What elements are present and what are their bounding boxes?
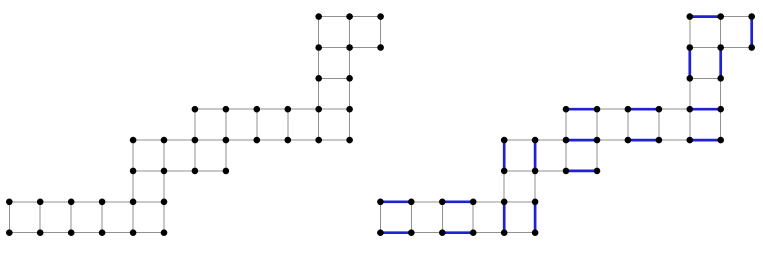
- vertex (11,4): [717, 137, 724, 144]
- vertex (12,1): [377, 44, 384, 51]
- vertex (6,3): [563, 106, 570, 113]
- vertex (0,7): [377, 229, 384, 236]
- edge (4,4)-(5,4): [133, 139, 164, 141]
- matching edge (6,4)-(7,4): [566, 139, 597, 142]
- vertex (9,4): [285, 137, 292, 144]
- vertex (7,4): [594, 137, 601, 144]
- vertex (4,6): [501, 199, 508, 206]
- edge (10,4)-(11,4): [319, 139, 350, 141]
- matching edge (8,4)-(9,4): [628, 139, 659, 142]
- edge (8,3)-(8,4): [256, 109, 258, 140]
- edge (6,3)-(7,3): [566, 108, 597, 110]
- vertex (10,1): [315, 44, 322, 51]
- edge (4,6)-(4,7): [132, 202, 134, 233]
- vertex (5,5): [161, 168, 168, 175]
- edge (10,3)-(10,4): [689, 109, 691, 140]
- edge (10,1)-(11,1): [319, 47, 350, 49]
- matching edge (6,3)-(7,3): [566, 108, 597, 111]
- edge (10,2)-(10,3): [318, 78, 320, 109]
- matching edge (4,6)-(4,7): [503, 202, 506, 233]
- edge (6,4)-(7,4): [195, 139, 226, 141]
- matching edge (10,4)-(11,4): [690, 139, 721, 142]
- right graph: wires/edges: [380, 17, 751, 233]
- vertex (2,7): [68, 229, 75, 236]
- vertex (8,3): [253, 106, 260, 113]
- edge (3,7)-(4,7): [102, 232, 133, 234]
- edge (6,3)-(7,3): [195, 108, 226, 110]
- vertex (0,6): [377, 199, 384, 206]
- edge (9,4)-(10,4): [288, 139, 319, 141]
- edge (10,1)-(11,1): [690, 47, 721, 49]
- edge (4,6)-(5,6): [133, 201, 164, 203]
- edge (9,3)-(10,3): [659, 108, 690, 110]
- edge (2,7)-(3,7): [442, 232, 473, 234]
- edge (5,5)-(6,5): [164, 170, 195, 172]
- vertex (6,5): [563, 168, 570, 175]
- edge (10,0)-(10,1): [318, 17, 320, 48]
- vertex (6,3): [192, 106, 199, 113]
- vertex (5,6): [532, 199, 539, 206]
- vertex (11,1): [346, 44, 353, 51]
- matching edge (2,7)-(3,7): [442, 231, 473, 234]
- vertex (10,4): [315, 137, 322, 144]
- edge (11,2)-(11,3): [349, 78, 351, 109]
- vertex (11,3): [346, 106, 353, 113]
- vertex (2,6): [68, 199, 75, 206]
- edge (7,3)-(8,3): [597, 108, 628, 110]
- edge (11,1)-(11,2): [720, 48, 722, 79]
- edge (4,6)-(4,7): [503, 202, 505, 233]
- vertex (9,4): [656, 137, 663, 144]
- vertex (7,3): [223, 106, 230, 113]
- edge (7,4)-(8,4): [226, 139, 257, 141]
- vertex (11,0): [717, 13, 724, 20]
- edge (5,5)-(6,5): [535, 170, 566, 172]
- vertex (4,6): [130, 199, 137, 206]
- left graph: vertices: [6, 13, 384, 236]
- vertex (11,4): [346, 137, 353, 144]
- edge (10,0)-(10,1): [689, 17, 691, 48]
- vertex (5,7): [161, 229, 168, 236]
- vertex (9,3): [285, 106, 292, 113]
- vertex (10,0): [687, 13, 694, 20]
- edge (11,1)-(12,1): [721, 47, 752, 49]
- matching edge (10,3)-(11,3): [690, 108, 721, 111]
- edge (3,6)-(3,7): [472, 202, 474, 233]
- edge (10,0)-(11,0): [319, 16, 350, 18]
- vertex (1,7): [408, 229, 415, 236]
- edge (6,3)-(6,4): [194, 109, 196, 140]
- matching edge (11,1)-(11,2): [719, 48, 722, 79]
- vertex (6,4): [192, 137, 199, 144]
- edge (4,4)-(4,5): [132, 140, 134, 171]
- right graph: vertices: [377, 13, 755, 236]
- edge (2,7)-(3,7): [71, 232, 102, 234]
- vertex (4,4): [501, 137, 508, 144]
- matching edge (10,1)-(10,2): [688, 48, 691, 79]
- edge (4,7)-(5,7): [504, 232, 535, 234]
- edge (10,2)-(11,2): [319, 77, 350, 79]
- vertex (4,7): [501, 229, 508, 236]
- edge (5,6)-(5,7): [163, 202, 165, 233]
- edge (5,6)-(5,7): [534, 202, 536, 233]
- edge (10,4)-(11,4): [690, 139, 721, 141]
- edge (4,6)-(5,6): [504, 201, 535, 203]
- edge (7,3)-(8,3): [226, 108, 257, 110]
- edge (4,5)-(4,6): [503, 171, 505, 202]
- edge (10,2)-(10,3): [689, 78, 691, 109]
- edge (1,6)-(1,7): [39, 202, 41, 233]
- edge (5,4)-(6,4): [535, 139, 566, 141]
- edge (10,3)-(11,3): [690, 108, 721, 110]
- edge (7,4)-(7,5): [596, 140, 598, 171]
- edge (4,4)-(5,4): [504, 139, 535, 141]
- edge (6,4)-(6,5): [194, 140, 196, 171]
- matching edge (5,6)-(5,7): [534, 202, 537, 233]
- edge (8,4)-(9,4): [628, 139, 659, 141]
- vertex (6,4): [563, 137, 570, 144]
- edge (11,3)-(11,4): [720, 109, 722, 140]
- vertex (9,3): [656, 106, 663, 113]
- edge (7,3)-(7,4): [596, 109, 598, 140]
- vertex (1,6): [37, 199, 44, 206]
- edge (10,3)-(11,3): [319, 108, 350, 110]
- vertex (11,1): [717, 44, 724, 51]
- edge (8,3)-(9,3): [257, 108, 288, 110]
- left graph: wires/edges: [9, 17, 380, 233]
- edge (3,6)-(4,6): [102, 201, 133, 203]
- vertex (8,4): [253, 137, 260, 144]
- matching edge (8,3)-(9,3): [628, 108, 659, 111]
- edge (11,0)-(12,0): [721, 16, 752, 18]
- vertex (5,4): [161, 137, 168, 144]
- vertex (5,4): [532, 137, 539, 144]
- edge (2,6)-(3,6): [442, 201, 473, 203]
- edge (2,6)-(2,7): [441, 202, 443, 233]
- vertex (10,4): [687, 137, 694, 144]
- vertex (11,2): [717, 75, 724, 82]
- edge (1,6)-(1,7): [410, 202, 412, 233]
- vertex (3,7): [99, 229, 106, 236]
- vertex (12,1): [748, 44, 755, 51]
- edge (5,4)-(5,5): [534, 140, 536, 171]
- vertex (10,2): [315, 75, 322, 82]
- vertex (3,6): [470, 199, 477, 206]
- vertex (4,5): [130, 168, 137, 175]
- vertex (10,3): [687, 106, 694, 113]
- vertex (5,5): [532, 168, 539, 175]
- edge (11,1)-(12,1): [350, 47, 381, 49]
- edge (6,5)-(7,5): [566, 170, 597, 172]
- edge (12,0)-(12,1): [380, 17, 382, 48]
- vertex (6,5): [192, 168, 199, 175]
- matching edge (12,0)-(12,1): [750, 17, 753, 48]
- vertex (2,6): [439, 199, 446, 206]
- edge (10,0)-(11,0): [690, 16, 721, 18]
- vertex (5,6): [161, 199, 168, 206]
- vertex (7,4): [223, 137, 230, 144]
- edge (8,3)-(8,4): [627, 109, 629, 140]
- vertex (10,1): [687, 44, 694, 51]
- edge (4,4)-(4,5): [503, 140, 505, 171]
- edge (6,4)-(7,4): [566, 139, 597, 141]
- edge (11,1)-(11,2): [349, 48, 351, 79]
- edge (10,2)-(11,2): [690, 77, 721, 79]
- edge (4,5)-(5,5): [504, 170, 535, 172]
- edge (11,0)-(11,1): [720, 17, 722, 48]
- edge (11,0)-(12,0): [350, 16, 381, 18]
- edge (6,4)-(6,5): [565, 140, 567, 171]
- vertex (12,0): [377, 13, 384, 20]
- edge (5,5)-(5,6): [163, 171, 165, 202]
- edge (6,3)-(6,4): [565, 109, 567, 140]
- vertex (10,0): [315, 13, 322, 20]
- edge (11,0)-(11,1): [349, 17, 351, 48]
- edge (3,7)-(4,7): [473, 232, 504, 234]
- vertex (11,0): [346, 13, 353, 20]
- edge (10,3)-(10,4): [318, 109, 320, 140]
- edge (1,7)-(2,7): [40, 232, 71, 234]
- vertex (10,3): [315, 106, 322, 113]
- edge (9,4)-(10,4): [659, 139, 690, 141]
- edge (3,6)-(4,6): [473, 201, 504, 203]
- vertex (7,3): [594, 106, 601, 113]
- edge (9,3)-(9,4): [287, 109, 289, 140]
- edge (3,6)-(3,7): [101, 202, 103, 233]
- vertex (8,4): [625, 137, 632, 144]
- vertex (1,6): [408, 199, 415, 206]
- edge (7,4)-(8,4): [597, 139, 628, 141]
- vertex (4,7): [130, 229, 137, 236]
- vertex (0,6): [6, 199, 13, 206]
- right graph: perfect matching (blue edges): [380, 17, 751, 233]
- vertex (11,3): [717, 106, 724, 113]
- edge (2,6)-(2,7): [70, 202, 72, 233]
- vertex (3,6): [99, 199, 106, 206]
- vertex (3,7): [470, 229, 477, 236]
- edge (6,5)-(7,5): [195, 170, 226, 172]
- edge (5,4)-(5,5): [163, 140, 165, 171]
- vertex (1,7): [37, 229, 44, 236]
- edge (5,4)-(6,4): [164, 139, 195, 141]
- edge (11,2)-(11,3): [720, 78, 722, 109]
- edge (1,6)-(2,6): [40, 201, 71, 203]
- edge (8,4)-(9,4): [257, 139, 288, 141]
- vertex (7,5): [223, 168, 230, 175]
- matching edge (10,0)-(11,0): [690, 15, 721, 18]
- edge (0,6)-(0,7): [379, 202, 381, 233]
- matching edge (6,5)-(7,5): [566, 170, 597, 173]
- edge (7,3)-(7,4): [225, 109, 227, 140]
- edge (0,7)-(1,7): [9, 232, 40, 234]
- matching edge (5,4)-(5,5): [534, 140, 537, 171]
- edge (11,3)-(11,4): [349, 109, 351, 140]
- matching edge (0,7)-(1,7): [380, 231, 411, 234]
- vertex (8,3): [625, 106, 632, 113]
- edge (9,3)-(10,3): [288, 108, 319, 110]
- edge (1,7)-(2,7): [411, 232, 442, 234]
- vertex (5,7): [532, 229, 539, 236]
- vertex (2,7): [439, 229, 446, 236]
- edge (0,7)-(1,7): [380, 232, 411, 234]
- edge (10,1)-(10,2): [318, 48, 320, 79]
- vertex (4,5): [501, 168, 508, 175]
- edge (0,6)-(0,7): [8, 202, 10, 233]
- edge (2,6)-(3,6): [71, 201, 102, 203]
- edge (5,5)-(5,6): [534, 171, 536, 202]
- vertex (12,0): [748, 13, 755, 20]
- matching edge (2,6)-(3,6): [442, 200, 473, 203]
- vertex (10,2): [687, 75, 694, 82]
- matching edge (0,6)-(1,6): [380, 200, 411, 203]
- edge (4,7)-(5,7): [133, 232, 164, 234]
- edge (7,4)-(7,5): [225, 140, 227, 171]
- vertex (4,4): [130, 137, 137, 144]
- edge (10,1)-(10,2): [689, 48, 691, 79]
- edge (8,3)-(9,3): [628, 108, 659, 110]
- edge (4,5)-(5,5): [133, 170, 164, 172]
- vertex (11,2): [346, 75, 353, 82]
- edge (9,3)-(9,4): [658, 109, 660, 140]
- edge (0,6)-(1,6): [9, 201, 40, 203]
- matching edge (4,4)-(4,5): [503, 140, 506, 171]
- vertex (7,5): [594, 168, 601, 175]
- edge (4,5)-(4,6): [132, 171, 134, 202]
- vertex (0,7): [6, 229, 13, 236]
- edge (0,6)-(1,6): [380, 201, 411, 203]
- edge (1,6)-(2,6): [411, 201, 442, 203]
- edge (12,0)-(12,1): [751, 17, 753, 48]
